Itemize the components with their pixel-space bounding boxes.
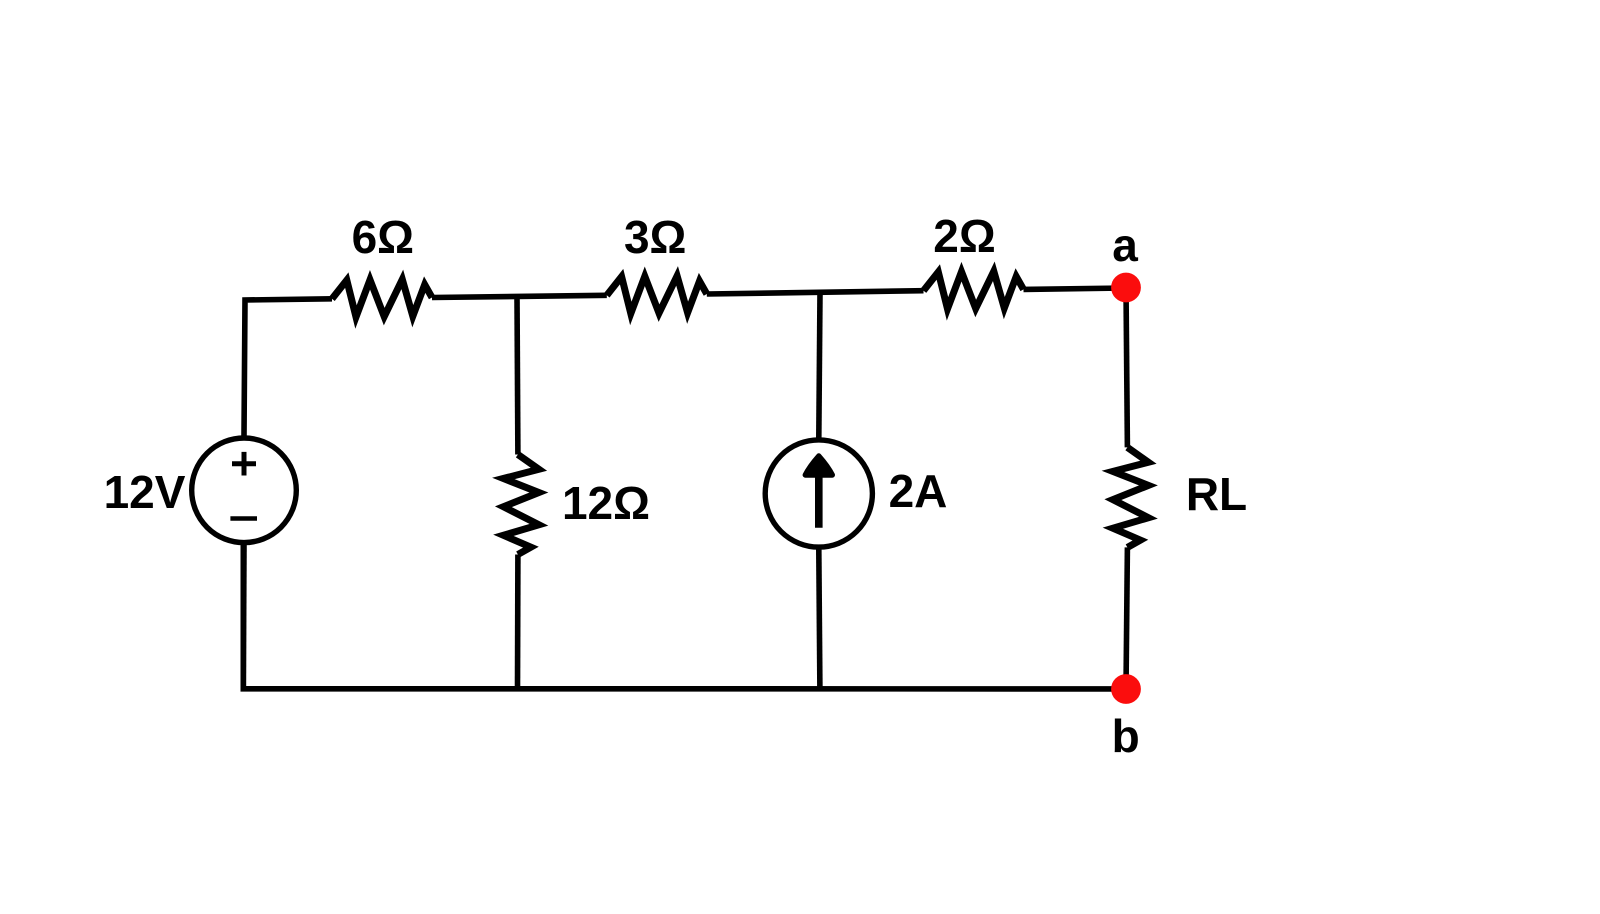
wire RL branch lower (RL to node b): [1126, 547, 1127, 689]
wire 2A branch upper: [819, 293, 820, 439]
svg-text:a: a: [1112, 219, 1138, 271]
svg-text:6Ω: 6Ω: [352, 211, 414, 263]
wire 2A branch lower: [819, 549, 820, 689]
wire left branch lower (voltage source to bottom rail): [241, 545, 247, 689]
wire 3-ohm to 2-ohm through 2A junction: [707, 291, 924, 294]
wire RL branch upper (node a to RL): [1126, 288, 1127, 447]
resistor RL (vertical): [1113, 447, 1149, 547]
svg-text:12Ω: 12Ω: [562, 477, 650, 529]
resistor 6 ohm: [332, 279, 432, 317]
wire 6-ohm to 3-ohm through 12-ohm junction: [432, 295, 607, 297]
resistor 12 ohm (vertical): [503, 455, 539, 555]
wire 12-ohm branch lower: [515, 555, 521, 690]
resistor 2 ohm: [924, 271, 1024, 309]
wire bottom rail: [243, 545, 1126, 689]
svg-text:b: b: [1112, 710, 1140, 762]
voltage source minus sign: [230, 516, 257, 521]
voltage source plus sign: [232, 452, 256, 476]
svg-text:2A: 2A: [889, 465, 948, 517]
wire 12-ohm branch upper: [514, 297, 521, 455]
wire top-left corner to 6-ohm resistor: [244, 299, 332, 436]
current source arrow: [805, 456, 832, 528]
wire 2-ohm to node a: [1024, 288, 1127, 289]
svg-text:3Ω: 3Ω: [624, 211, 686, 263]
voltage source V1 circle: [192, 438, 297, 543]
svg-text:RL: RL: [1186, 468, 1247, 520]
resistor 3 ohm: [607, 276, 707, 314]
svg-text:12V: 12V: [104, 466, 186, 518]
node b dot: [1111, 674, 1141, 704]
node a dot: [1111, 273, 1141, 303]
svg-text:2Ω: 2Ω: [933, 210, 995, 262]
current source I1 circle: [765, 440, 872, 547]
